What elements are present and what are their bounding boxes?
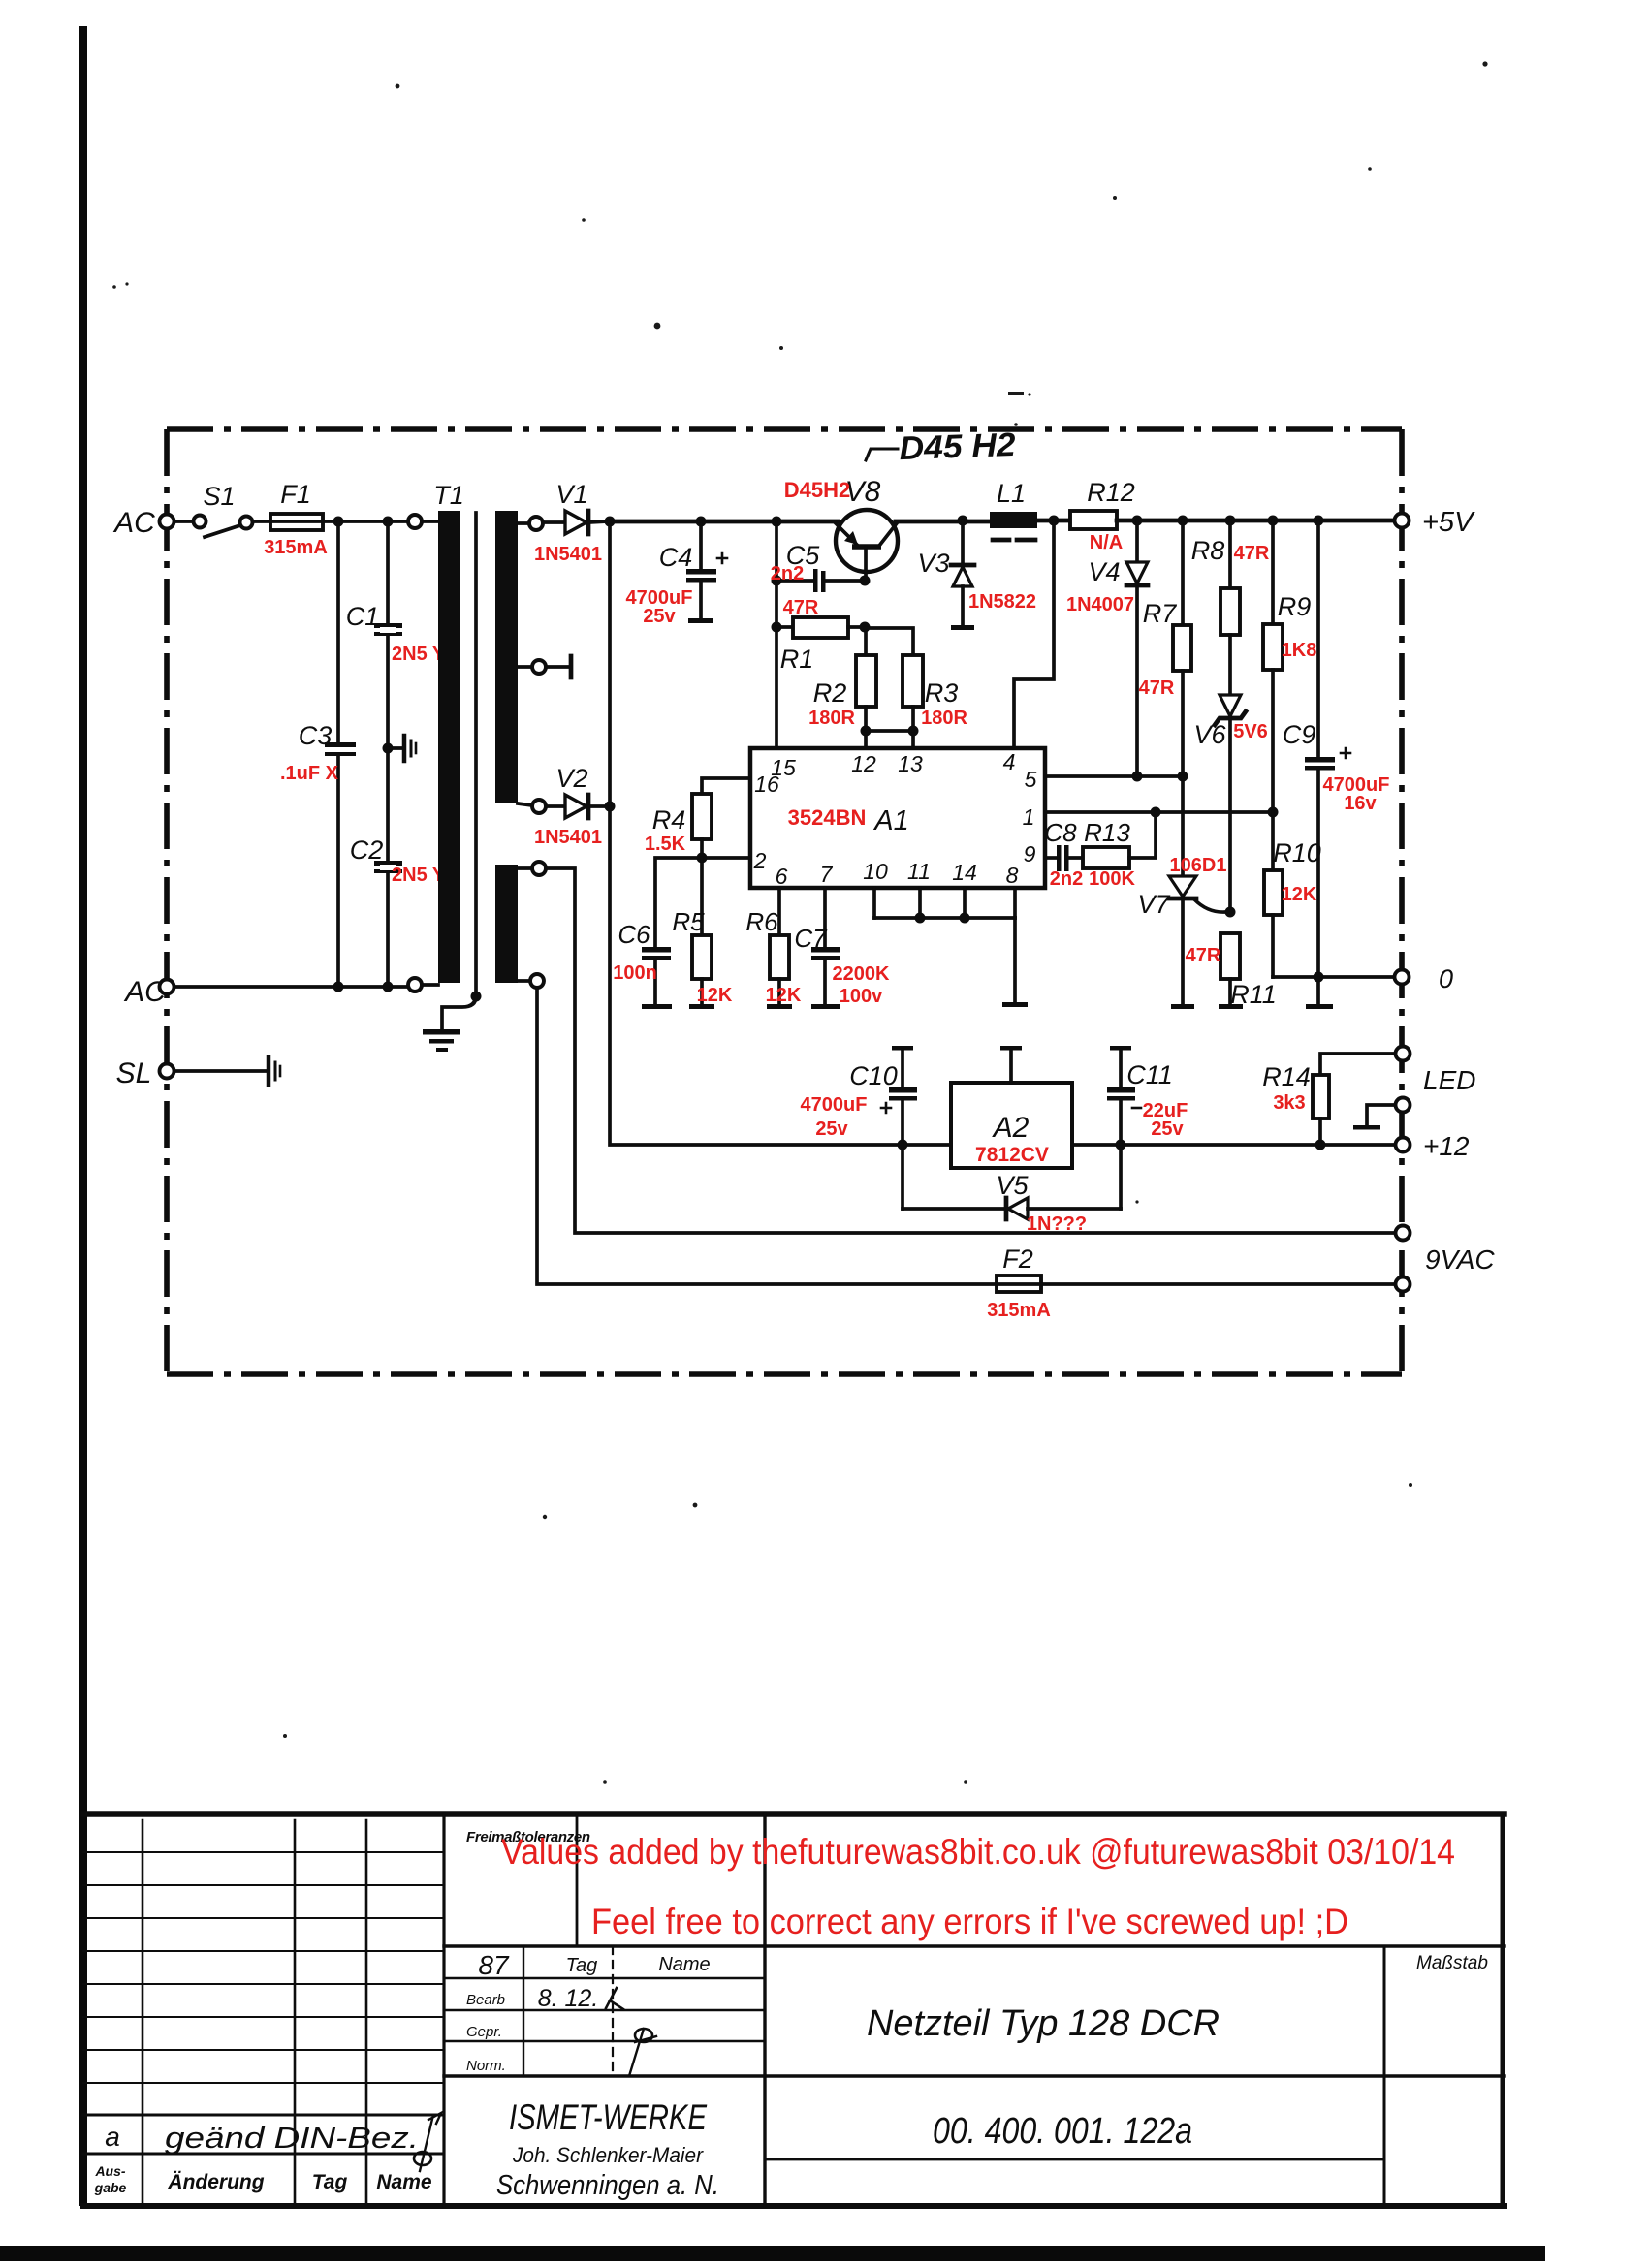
svg-text:180R: 180R bbox=[808, 708, 855, 729]
svg-text:C7: C7 bbox=[794, 924, 828, 953]
value 4700uF 25v (C4) bbox=[626, 587, 693, 627]
svg-text:0: 0 bbox=[1439, 964, 1453, 993]
node R2 bottom pin12 bbox=[861, 726, 872, 737]
svg-text:13: 13 bbox=[898, 751, 923, 776]
svg-text:A1: A1 bbox=[872, 805, 908, 836]
resistor R7 bbox=[1173, 520, 1191, 776]
capacitor C9 bbox=[1305, 520, 1350, 1009]
resistor R2 bbox=[856, 627, 876, 748]
value 4700uF 25v (C10) bbox=[801, 1094, 868, 1140]
resistor R8 bbox=[1220, 520, 1240, 695]
svg-text:C3: C3 bbox=[299, 721, 333, 750]
node pin5 wire / R7 bbox=[1178, 772, 1188, 782]
svg-text:a: a bbox=[105, 2122, 120, 2152]
svg-text:R9: R9 bbox=[1278, 592, 1312, 621]
node R1 left bbox=[772, 622, 782, 633]
wire SL stub bbox=[174, 1069, 266, 1073]
value 22uF 25v (C11) bbox=[1143, 1100, 1188, 1140]
transistor V8 (D45H2 pass transistor) bbox=[835, 510, 898, 581]
svg-text:87: 87 bbox=[478, 1950, 510, 1980]
svg-text:7: 7 bbox=[820, 862, 834, 887]
svg-text:F1: F1 bbox=[280, 480, 311, 509]
SECTION: title block bbox=[83, 1814, 1505, 2206]
svg-text:R8: R8 bbox=[1191, 536, 1225, 565]
wire core to ground bbox=[442, 996, 476, 1029]
wire L1 to R12 bbox=[1037, 519, 1070, 523]
svg-text:47R: 47R bbox=[1139, 677, 1175, 699]
svg-text:2n2: 2n2 bbox=[771, 563, 804, 584]
transformer T1 secondary upper winding bar bbox=[495, 511, 518, 803]
svg-text:R12: R12 bbox=[1087, 478, 1135, 507]
revision signature bbox=[414, 2113, 441, 2171]
wire rail R12 to +5V terminal bbox=[1117, 519, 1394, 523]
svg-text:Bearb: Bearb bbox=[466, 1992, 505, 2008]
node V4 on rail bbox=[1132, 516, 1143, 526]
svg-text:5: 5 bbox=[1025, 767, 1037, 792]
svg-text:2n2: 2n2 bbox=[1050, 868, 1083, 890]
wire R2/R3 bottoms joined bbox=[866, 729, 913, 733]
node R8 on rail bbox=[1225, 516, 1236, 526]
node pin1 / R9 / R10 bbox=[1268, 807, 1279, 818]
svg-text:100n: 100n bbox=[613, 962, 657, 984]
svg-text:LED: LED bbox=[1423, 1065, 1475, 1095]
header Aus-gabe bbox=[94, 2163, 127, 2195]
svg-text:14: 14 bbox=[952, 860, 977, 885]
svg-text:+5V: +5V bbox=[1422, 507, 1475, 538]
svg-text:SL: SL bbox=[116, 1057, 152, 1089]
thyristor V7 (106D1) bbox=[1169, 776, 1225, 1009]
node core to ground bbox=[471, 992, 482, 1002]
svg-text:V2: V2 bbox=[555, 764, 587, 793]
svg-text:gabe: gabe bbox=[94, 2180, 127, 2195]
svg-text:2N5 Y: 2N5 Y bbox=[392, 865, 446, 886]
svg-text:25v: 25v bbox=[1151, 1118, 1184, 1140]
wire switch to fuse F1 bbox=[253, 520, 270, 523]
node R4/pin2 bbox=[697, 853, 708, 864]
capacitor C10 bbox=[881, 1046, 917, 1209]
wire +5V raw rail V1 to V8 bbox=[610, 520, 838, 524]
terminal 9VAC lower bbox=[1396, 1277, 1410, 1292]
svg-text:R2: R2 bbox=[813, 678, 847, 708]
node pin11 bus bbox=[915, 913, 926, 924]
resistor R11 bbox=[1219, 933, 1243, 1009]
wire lower 9VAC through F2 bbox=[537, 988, 997, 1284]
node R1/R2/R3 base junction bbox=[860, 622, 871, 633]
resistor R14 bbox=[1313, 1054, 1396, 1145]
switch S1 bbox=[194, 516, 253, 538]
svg-text:8. 12.: 8. 12. bbox=[538, 1985, 599, 2012]
svg-text:2N5 Y: 2N5 Y bbox=[392, 644, 446, 665]
svg-text:1N5822: 1N5822 bbox=[968, 591, 1036, 613]
svg-text:1.5K: 1.5K bbox=[645, 834, 686, 855]
svg-text:Gepr.: Gepr. bbox=[466, 2024, 502, 2040]
svg-text:1K8: 1K8 bbox=[1282, 640, 1317, 661]
transformer secondary tap to V2 bbox=[518, 800, 546, 813]
wire AC bottom terminal to transformer bbox=[174, 985, 408, 989]
wire A2 output to +12 terminal bbox=[1072, 1143, 1396, 1147]
resistor R1 bbox=[776, 617, 862, 638]
svg-text:T1: T1 bbox=[433, 481, 464, 510]
svg-text:4: 4 bbox=[1003, 749, 1016, 774]
svg-text:F2: F2 bbox=[1002, 1244, 1033, 1274]
terminal LED bbox=[1396, 1047, 1410, 1061]
value 2200K 100v (C7) bbox=[833, 963, 890, 1007]
regulator A2 box bbox=[951, 1083, 1072, 1168]
svg-text:ISMET-WERKE: ISMET-WERKE bbox=[509, 2097, 708, 2137]
svg-text:R3: R3 bbox=[925, 678, 959, 708]
signature squiggle 1 bbox=[606, 1988, 623, 2009]
svg-text:25v: 25v bbox=[815, 1118, 848, 1140]
wire C3 branch vertical bbox=[336, 521, 340, 986]
node V2 cathode bbox=[605, 802, 616, 812]
svg-text:7812CV: 7812CV bbox=[975, 1144, 1049, 1166]
svg-text:12K: 12K bbox=[697, 985, 733, 1006]
wire upper 9VAC from transformer tap bbox=[546, 868, 1396, 1233]
svg-text:C8: C8 bbox=[1044, 818, 1077, 847]
A2 common stub bbox=[1000, 1046, 1022, 1083]
svg-text:25v: 25v bbox=[643, 606, 676, 627]
node C9 on rail bbox=[1314, 516, 1324, 526]
svg-text:6: 6 bbox=[776, 864, 788, 889]
svg-text:A2: A2 bbox=[992, 1112, 1030, 1144]
ground bar pin8 bus bbox=[1002, 1002, 1028, 1007]
svg-text:16v: 16v bbox=[1344, 793, 1377, 814]
scan artifact left vertical black line bbox=[79, 26, 87, 2206]
resistor R10 bbox=[1264, 812, 1283, 977]
svg-text:S1: S1 bbox=[203, 482, 235, 511]
capacitor C4 bbox=[686, 521, 727, 623]
resistor R9 bbox=[1263, 520, 1283, 812]
svg-text:R6: R6 bbox=[745, 907, 778, 936]
capacitor C6 bbox=[642, 947, 672, 1009]
signature squiggle 2 bbox=[629, 2029, 656, 2076]
svg-text:Schwenningen a. N.: Schwenningen a. N. bbox=[496, 2170, 719, 2201]
node C5/R1 branch bbox=[772, 517, 782, 527]
svg-text:R5: R5 bbox=[672, 907, 705, 936]
svg-text:R11: R11 bbox=[1230, 980, 1277, 1009]
svg-text:47R: 47R bbox=[1186, 945, 1221, 966]
svg-text:V6: V6 bbox=[1193, 720, 1226, 749]
node C5 left bbox=[772, 576, 782, 586]
IC A1 box bbox=[750, 748, 1045, 888]
svg-text:12K: 12K bbox=[766, 985, 802, 1006]
wire IC pin5 to V4/R7 bbox=[1045, 774, 1183, 778]
svg-text:C9: C9 bbox=[1283, 720, 1316, 749]
wire IC pin1 to R9/R10 bbox=[1045, 810, 1273, 814]
terminal 0 bbox=[1395, 970, 1410, 985]
diode V4 bbox=[1126, 520, 1148, 776]
diode V3 bbox=[951, 520, 974, 630]
svg-text:2200K: 2200K bbox=[833, 963, 890, 985]
svg-text:47R: 47R bbox=[1234, 543, 1270, 564]
svg-text:16: 16 bbox=[754, 772, 779, 797]
chassis earth symbol at C1/C2 bbox=[388, 736, 416, 761]
svg-text:R13: R13 bbox=[1084, 818, 1130, 847]
node C4 bbox=[696, 517, 707, 527]
node pin4 branch bbox=[1049, 516, 1060, 526]
svg-text:R10: R10 bbox=[1273, 838, 1321, 867]
wire 0V line to terminal bbox=[1273, 975, 1395, 979]
svg-text:.1uF X: .1uF X bbox=[280, 763, 339, 784]
svg-text:10: 10 bbox=[863, 859, 888, 884]
svg-text:V7: V7 bbox=[1137, 890, 1170, 919]
svg-text:Norm.: Norm. bbox=[466, 2058, 506, 2074]
value 4700uF 16v (C9) bbox=[1323, 774, 1390, 814]
wire C5/R1 branch vertical to pin 15 bbox=[775, 521, 778, 748]
svg-text:Joh. Schlenker-Maier: Joh. Schlenker-Maier bbox=[512, 2143, 705, 2167]
LED return chassis symbol bbox=[1353, 1105, 1396, 1130]
svg-text:Maßstab: Maßstab bbox=[1416, 1953, 1488, 1973]
node V3 branch bbox=[958, 516, 968, 526]
node C9 on 0V line bbox=[1314, 972, 1324, 983]
node C2 bottom bbox=[383, 982, 394, 992]
svg-text:1N5401: 1N5401 bbox=[534, 827, 602, 848]
node R14 bottom on +12 wire bbox=[1315, 1140, 1326, 1150]
svg-text:9VAC: 9VAC bbox=[1425, 1244, 1495, 1275]
handwritten annotation D45 H2 bbox=[866, 426, 1016, 467]
node V7 gate / R11 bbox=[1225, 907, 1236, 918]
svg-text:Tag: Tag bbox=[312, 2171, 348, 2193]
resistor R3 bbox=[865, 628, 923, 748]
svg-text:Änderung: Änderung bbox=[167, 2171, 264, 2193]
wire F1 to transformer primary bbox=[323, 520, 408, 523]
node R3 bottom pin13 bbox=[908, 726, 919, 737]
node pin5 wire / V4 bbox=[1132, 772, 1143, 782]
chassis earth symbol at SL bbox=[269, 1057, 280, 1085]
diode V5 bypass bbox=[903, 1198, 1121, 1219]
svg-text:3k3: 3k3 bbox=[1273, 1092, 1305, 1114]
svg-text:3524BN: 3524BN bbox=[788, 805, 867, 830]
svg-text:V5: V5 bbox=[996, 1171, 1029, 1200]
node A2 input / C10 bbox=[898, 1140, 908, 1150]
node R7 on rail bbox=[1178, 516, 1188, 526]
capacitor C11 bbox=[1107, 1046, 1141, 1209]
wire pin2 to C6 bbox=[655, 858, 750, 948]
svg-text:8: 8 bbox=[1006, 863, 1019, 888]
terminal AC top bbox=[160, 515, 174, 529]
svg-text:12K: 12K bbox=[1282, 884, 1317, 905]
svg-text:N/A: N/A bbox=[1090, 532, 1123, 553]
capacitor C2 bbox=[374, 861, 402, 873]
wire pin4 branch bbox=[1014, 520, 1054, 748]
terminal AC bottom bbox=[160, 980, 174, 994]
svg-text:geänd DIN-Bez.: geänd DIN-Bez. bbox=[165, 2121, 419, 2155]
terminal SL bbox=[160, 1064, 174, 1079]
svg-text:315mA: 315mA bbox=[264, 537, 328, 558]
capacitor C8 bbox=[1045, 845, 1083, 871]
svg-text:Feel free to correct any error: Feel free to correct any errors if I've … bbox=[591, 1902, 1348, 1941]
resistor R5 bbox=[689, 858, 714, 1009]
scan specks bbox=[112, 61, 1487, 1783]
fuse F2 bbox=[997, 1276, 1396, 1292]
terminal +12 bbox=[1396, 1138, 1410, 1152]
transformer primary top terminal bbox=[408, 515, 438, 528]
svg-text:47R: 47R bbox=[783, 597, 819, 618]
svg-text:C4: C4 bbox=[659, 543, 693, 572]
wire pin16 to R4 bbox=[702, 778, 750, 794]
resistor R4 bbox=[692, 794, 712, 858]
svg-text:180R: 180R bbox=[921, 708, 967, 729]
transformer primary bottom terminal bbox=[408, 978, 438, 992]
node A2 output / C11 bbox=[1116, 1140, 1126, 1150]
svg-text:Name: Name bbox=[658, 1954, 710, 1975]
wire rail V8 to L1 bbox=[896, 520, 990, 524]
inductor L1 bbox=[990, 512, 1037, 540]
svg-text:C10: C10 bbox=[849, 1061, 898, 1090]
wire rectified node down to A2 input bbox=[610, 521, 951, 1145]
svg-text:C2: C2 bbox=[350, 835, 384, 865]
transformer T1 secondary lower winding bar bbox=[495, 865, 518, 983]
svg-text:12: 12 bbox=[851, 751, 876, 776]
svg-text:315mA: 315mA bbox=[987, 1300, 1051, 1321]
zener diode V6 bbox=[1215, 695, 1246, 912]
svg-text:2: 2 bbox=[753, 848, 767, 873]
svg-text:5V6: 5V6 bbox=[1233, 721, 1268, 742]
node chassis tap between C1 and C2 bbox=[383, 743, 394, 754]
transformer T1 core line bbox=[474, 513, 478, 996]
node pin14 bus bbox=[960, 913, 970, 924]
svg-text:4700uF: 4700uF bbox=[801, 1094, 868, 1116]
dash-dot enclosure border bbox=[167, 429, 1402, 1374]
svg-text:C11: C11 bbox=[1126, 1060, 1173, 1089]
svg-text:AC: AC bbox=[112, 507, 155, 539]
capacitor C5 bbox=[776, 569, 862, 592]
transformer lower secondary top terminal bbox=[518, 862, 546, 875]
terminal LED return bbox=[1396, 1098, 1410, 1113]
svg-text:1N4007: 1N4007 bbox=[1066, 594, 1134, 615]
resistor R6 on pin 6 bbox=[767, 888, 792, 1009]
svg-text:R1: R1 bbox=[780, 645, 814, 674]
svg-text:1: 1 bbox=[1023, 804, 1035, 830]
svg-text:R14: R14 bbox=[1262, 1062, 1311, 1091]
node C1 top bbox=[383, 517, 394, 527]
capacitor C7 on pin 7 bbox=[811, 888, 840, 1009]
svg-text:100K: 100K bbox=[1089, 868, 1135, 890]
svg-text:V1: V1 bbox=[555, 480, 587, 509]
transformer T1 primary winding bar bbox=[438, 511, 460, 983]
svg-text:Aus-: Aus- bbox=[94, 2163, 125, 2179]
diode V2 bbox=[546, 795, 610, 818]
transformer lower secondary bottom terminal bbox=[518, 974, 544, 988]
fuse F1 bbox=[270, 514, 323, 530]
svg-text:Name: Name bbox=[376, 2171, 432, 2193]
node R9 on rail bbox=[1268, 516, 1279, 526]
svg-text:D45H2: D45H2 bbox=[784, 478, 850, 502]
node R13 riser on pin1 wire bbox=[1151, 807, 1161, 818]
svg-text:11: 11 bbox=[907, 859, 931, 884]
svg-text:R7: R7 bbox=[1143, 599, 1177, 628]
resistor R13 bbox=[1083, 812, 1156, 868]
svg-text:100v: 100v bbox=[840, 986, 883, 1007]
wire C1/C2 branch vertical bbox=[386, 521, 390, 986]
svg-text:00. 400. 001. 122a: 00. 400. 001. 122a bbox=[933, 2111, 1192, 2152]
wire AC top terminal to switch bbox=[174, 520, 194, 523]
svg-text:L1: L1 bbox=[997, 479, 1026, 508]
svg-text:Netzteil Typ 128 DCR: Netzteil Typ 128 DCR bbox=[867, 2003, 1220, 2044]
capacitor C1 bbox=[374, 623, 402, 636]
svg-text:C6: C6 bbox=[618, 920, 650, 949]
svg-text:106D1: 106D1 bbox=[1170, 855, 1227, 876]
svg-text:Values added by thefuturewas8b: Values added by thefuturewas8bit.co.uk @… bbox=[501, 1832, 1455, 1872]
scan artifact bottom black bar bbox=[0, 2246, 1545, 2261]
svg-text:C1: C1 bbox=[346, 602, 380, 631]
transformer secondary mid tap (unused) bbox=[518, 656, 571, 677]
svg-text:9: 9 bbox=[1024, 841, 1036, 866]
node V8 base to C5 bbox=[860, 576, 871, 586]
node C3 bottom bbox=[333, 982, 344, 992]
node C3 top bbox=[333, 517, 344, 527]
diode V1 bbox=[543, 511, 608, 534]
svg-text:+12: +12 bbox=[1423, 1131, 1470, 1161]
svg-text:R4: R4 bbox=[652, 805, 686, 835]
wire pins 10/11/14/8 ground bus bbox=[874, 888, 1015, 1002]
svg-text:D45 H2: D45 H2 bbox=[899, 426, 1016, 467]
svg-text:1N5401: 1N5401 bbox=[534, 544, 602, 565]
svg-text:Tag: Tag bbox=[566, 1955, 598, 1976]
terminal 9VAC upper bbox=[1396, 1226, 1410, 1241]
ground symbol below transformer bbox=[423, 1029, 460, 1052]
node V1 cathode on rail bbox=[605, 517, 616, 527]
capacitor C3 bbox=[325, 742, 356, 756]
svg-text:V4: V4 bbox=[1088, 557, 1120, 586]
resistor R12 bbox=[1070, 511, 1117, 529]
terminal +5V bbox=[1395, 514, 1410, 528]
transformer secondary top terminal bbox=[518, 517, 543, 530]
svg-text:V3: V3 bbox=[917, 549, 949, 578]
